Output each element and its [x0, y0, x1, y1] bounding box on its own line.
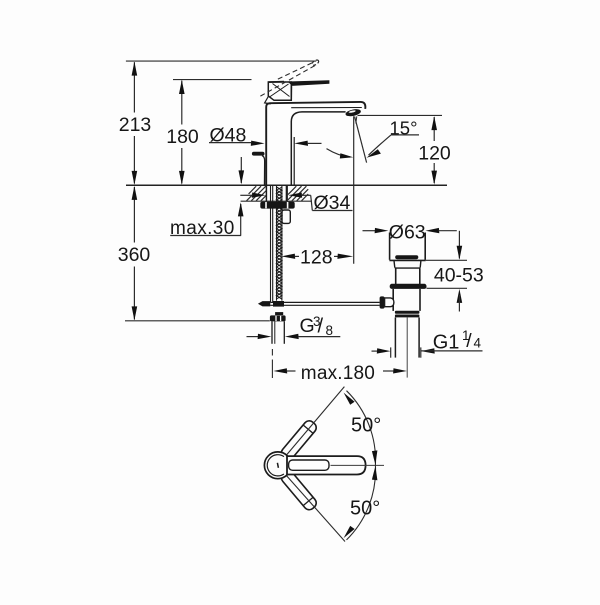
15 degree slant line: [355, 117, 367, 163]
handle raised position (dashed): [259, 59, 320, 97]
svg-text:Ø63: Ø63: [389, 221, 426, 243]
extension line top (213 upper ref): [126, 60, 316, 62]
dimension G3/8: [247, 314, 341, 339]
top view: 50 deg ray lower: [287, 476, 345, 542]
dimension 40-53: [426, 231, 484, 312]
extension line (120 upper ref): [358, 114, 443, 116]
top view: 50 deg arc lower: [344, 465, 378, 540]
dimension G1 1/4: [372, 328, 483, 358]
dimension 128: [281, 247, 353, 269]
aerator drip line: [356, 116, 357, 123]
aerator at spout tip: [345, 108, 362, 118]
dimension max.180: [273, 363, 407, 384]
clamp block: [385, 298, 394, 307]
supply pipe below nut: [272, 321, 284, 343]
counter cross-section hatch left: [247, 186, 267, 201]
dimension Ø48 label and leader: [209, 124, 322, 146]
dimension 213: [119, 62, 152, 185]
drain compression nut: [395, 311, 420, 318]
threaded shank rod: [277, 186, 282, 301]
drain pipe centerline: [406, 317, 408, 377]
svg-text:/: /: [318, 316, 324, 338]
svg-text:4: 4: [474, 335, 482, 350]
svg-text:max.180: max.180: [301, 363, 375, 384]
svg-text:360: 360: [118, 244, 151, 266]
dimension 360: [118, 186, 151, 321]
top view: faucet body circle: [264, 452, 291, 479]
top view: rotated handle bar upper: [279, 419, 318, 462]
shank walls through counter: [266, 186, 286, 202]
faucet body outline: [266, 102, 365, 185]
pop-up plug top (dark): [395, 255, 418, 259]
svg-text:50°: 50°: [351, 415, 381, 437]
clamp screw knob (dark): [380, 296, 385, 308]
label 50 deg lower: [350, 498, 380, 520]
drain flange upper cylinder: [389, 233, 425, 261]
svg-text:50°: 50°: [350, 498, 380, 520]
top view: 50 deg ray upper: [287, 387, 345, 455]
15 degree annotation: [327, 117, 420, 158]
mounting flange nut below counter: [260, 202, 294, 209]
drain lower body: [393, 289, 420, 311]
svg-text:G1: G1: [433, 331, 460, 353]
cartridge body under lever: [265, 82, 292, 104]
svg-text:180: 180: [166, 126, 199, 148]
top view: handle horizontal: [287, 456, 384, 474]
pop-up pull rod knob: [252, 152, 265, 185]
dimension 180: [166, 80, 199, 185]
dimension max.30 upper arrow: [239, 157, 245, 184]
dimension Ø34: [240, 192, 352, 214]
countertop surface line: [126, 184, 447, 186]
svg-text:8: 8: [326, 323, 334, 338]
label 50 deg upper: [351, 415, 381, 437]
drain tailpipe: [395, 317, 419, 357]
extension line bottom (360 lower ref): [125, 320, 270, 322]
svg-text:40-53: 40-53: [434, 264, 484, 286]
svg-text:120: 120: [418, 142, 451, 164]
top view: rotated handle bar lower: [279, 469, 318, 512]
extension line (180 upper ref): [173, 79, 252, 81]
svg-text:213: 213: [119, 114, 152, 136]
counter bottom line: [241, 200, 312, 202]
horizontal pop-up linkage rod: [258, 301, 380, 307]
counter cross-section hatch right: [288, 186, 308, 201]
drain body neck: [394, 261, 421, 284]
svg-text:128: 128: [300, 247, 333, 269]
dimension 120: [418, 116, 451, 185]
dimension Ø63: [363, 221, 457, 243]
dimension max.30: [170, 202, 244, 239]
pop-up vertical rod: [271, 186, 273, 302]
G3/8 connection nut: [270, 312, 286, 321]
handle lever (horizontal): [268, 80, 329, 100]
faucet centerline (dashed): [271, 349, 273, 382]
vertical extension line from spout tip: [353, 116, 355, 264]
top view: 50 deg arc upper: [344, 391, 378, 466]
drain O-ring band (dark): [390, 284, 427, 289]
svg-text:/: /: [466, 330, 472, 352]
hose connection block: [282, 210, 290, 223]
